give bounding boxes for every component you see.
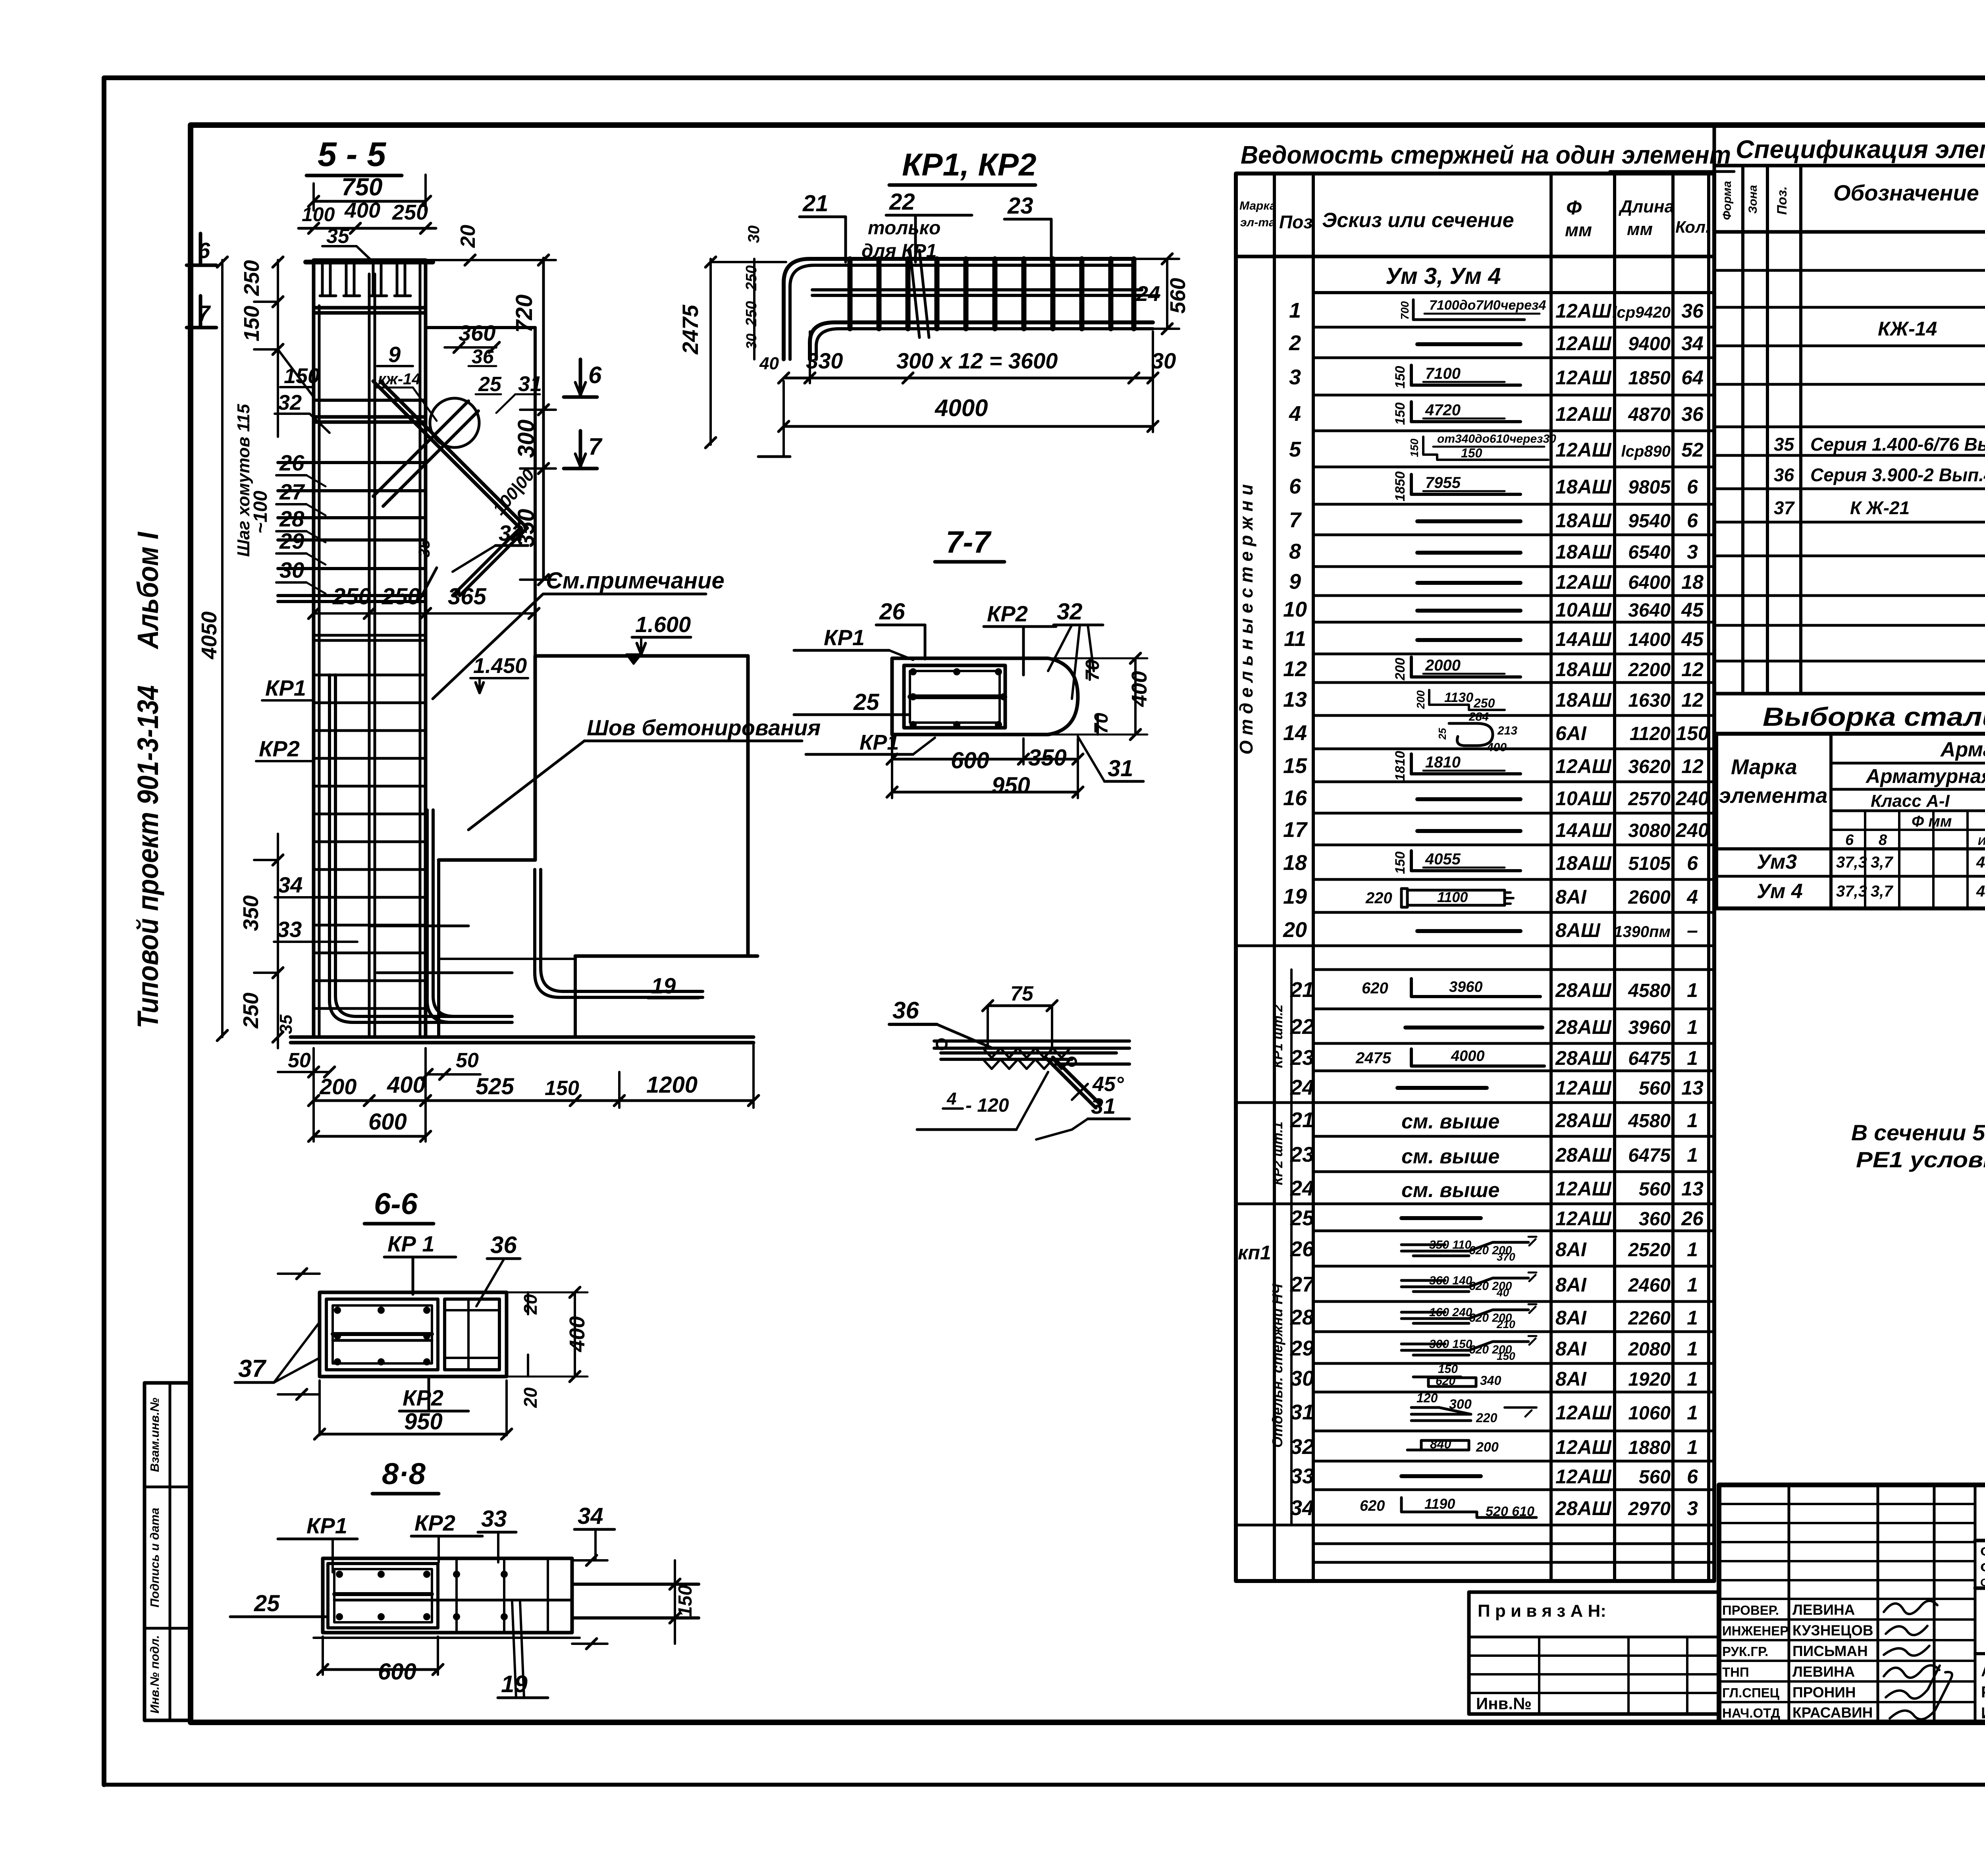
subheader Ум 3, Ум 4 — [1313, 291, 1714, 294]
svg-text:250: 250 — [332, 584, 371, 609]
svg-text:18АШ: 18АШ — [1555, 476, 1612, 498]
svg-text:22: 22 — [889, 189, 915, 215]
svg-text:284: 284 — [1469, 710, 1489, 723]
svg-text:34: 34 — [1681, 332, 1704, 355]
frame bottom bar — [810, 322, 1153, 359]
central table column lines — [1273, 174, 1276, 1581]
left dim chain 250 150 — [277, 260, 279, 437]
svg-text:12АШ: 12АШ — [1555, 1465, 1612, 1488]
svg-text:24: 24 — [1290, 1176, 1314, 1200]
svg-text:20: 20 — [520, 1294, 541, 1315]
svg-text:4000: 4000 — [1451, 1048, 1485, 1064]
svg-text:25: 25 — [853, 689, 879, 715]
svg-text:30: 30 — [745, 226, 763, 243]
svg-text:200: 200 — [319, 1074, 357, 1099]
svg-text:35: 35 — [416, 540, 433, 557]
svg-text:1190: 1190 — [1424, 1496, 1455, 1512]
right extension 8-8 — [572, 1583, 699, 1586]
svg-text:150: 150 — [284, 364, 320, 388]
svg-text:6475: 6475 — [1628, 1048, 1671, 1069]
svg-text:9: 9 — [1289, 570, 1301, 594]
break mark — [910, 250, 919, 337]
svg-text:45: 45 — [1681, 628, 1704, 650]
svg-text:см. выше: см. выше — [1401, 1179, 1499, 1202]
svg-text:25: 25 — [478, 373, 502, 396]
signatures — [1884, 1601, 1937, 1614]
svg-text:К Ж-21: К Ж-21 — [1850, 497, 1910, 518]
svg-text:7: 7 — [198, 301, 211, 326]
svg-text:КР1: КР1 — [824, 625, 865, 650]
svg-text:КР1 шт.2: КР1 шт.2 — [1270, 1005, 1285, 1068]
svg-text:340: 340 — [1480, 1373, 1501, 1388]
svg-text:КР2: КР2 — [414, 1510, 455, 1535]
svg-text:ЛЕВИНА: ЛЕВИНА — [1792, 1664, 1855, 1680]
svg-text:8АI: 8АI — [1555, 886, 1587, 908]
svg-text:8: 8 — [1879, 832, 1887, 848]
svg-text:6: 6 — [1289, 474, 1301, 498]
svg-text:lср890: lср890 — [1621, 443, 1671, 460]
svg-text:10: 10 — [1283, 598, 1307, 621]
weld circle mark — [430, 398, 479, 447]
svg-text:350: 350 — [513, 509, 539, 548]
svg-text:Эскиз или сечение: Эскиз или сечение — [1322, 209, 1514, 232]
svg-text:18АШ: 18АШ — [1555, 509, 1612, 532]
section mark 7 left — [199, 296, 202, 328]
steel table data rows — [1716, 847, 1985, 850]
svg-text:12: 12 — [1681, 658, 1704, 681]
svg-text:6: 6 — [1687, 476, 1698, 498]
embed plate 35 top — [306, 260, 433, 264]
svg-text:РЕ1. РАЗРЕЗЫ. АРМАТУРНЫЕ: РЕ1. РАЗРЕЗЫ. АРМАТУРНЫЕ — [1981, 1683, 1985, 1701]
svg-text:40: 40 — [1496, 1286, 1509, 1299]
svg-text:ТНП: ТНП — [1722, 1665, 1749, 1679]
svg-text:330: 330 — [806, 348, 843, 373]
svg-text:6-6: 6-6 — [374, 1187, 418, 1221]
svg-text:400: 400 — [1127, 671, 1151, 707]
svg-text:13: 13 — [1681, 1178, 1704, 1200]
svg-text:28АШ: 28АШ — [1555, 1047, 1612, 1069]
lower ties — [314, 634, 425, 637]
svg-text:41,0: 41,0 — [1976, 883, 1985, 900]
svg-text:350 110: 350 110 — [1429, 1238, 1472, 1251]
svg-text:2570: 2570 — [1628, 789, 1671, 810]
svg-text:3: 3 — [1687, 541, 1698, 563]
svg-text:400: 400 — [344, 199, 380, 222]
svg-text:620: 620 — [1436, 1375, 1455, 1388]
svg-text:эл-та: эл-та — [1240, 216, 1276, 229]
svg-text:мм: мм — [1627, 220, 1653, 239]
svg-text:20: 20 — [457, 225, 480, 248]
svg-text:Выборка стали на один элемент,: Выборка стали на один элемент, кГ — [1763, 702, 1985, 731]
svg-text:только: только — [868, 218, 940, 239]
svg-text:2200: 2200 — [1628, 659, 1671, 681]
svg-text:Инв.№: Инв.№ — [1476, 1694, 1532, 1713]
svg-text:2260: 2260 — [1628, 1308, 1671, 1329]
svg-text:17: 17 — [1283, 818, 1308, 842]
svg-text:12АШ: 12АШ — [1555, 300, 1612, 322]
svg-text:4720: 4720 — [1425, 401, 1461, 419]
svg-text:1: 1 — [1687, 1436, 1698, 1458]
svg-text:Ведомость стержней на один эле: Ведомость стержней на один элемент — [1241, 141, 1731, 169]
diagonal strut bars — [373, 381, 520, 528]
svg-text:150: 150 — [1393, 403, 1408, 425]
rebar dots 6-6 — [334, 1307, 341, 1314]
svg-text:250: 250 — [239, 993, 263, 1029]
svg-text:31: 31 — [1108, 756, 1133, 781]
svg-text:1: 1 — [1687, 1307, 1698, 1329]
svg-text:70: 70 — [1091, 713, 1112, 734]
svg-text:14АШ: 14АШ — [1555, 819, 1612, 841]
svg-text:36: 36 — [1774, 465, 1794, 485]
svg-text:ИНЖЕНЕР: ИНЖЕНЕР — [1722, 1623, 1788, 1638]
svg-text:520 610: 520 610 — [1486, 1504, 1534, 1519]
svg-text:ПИСЬМАН: ПИСЬМАН — [1792, 1643, 1868, 1659]
dim 560 rotated right — [1166, 259, 1168, 329]
svg-text:Инв.№ подл.: Инв.№ подл. — [148, 1635, 162, 1713]
svg-text:1810: 1810 — [1425, 754, 1461, 771]
svg-text:240: 240 — [1675, 787, 1709, 810]
svg-text:28АШ: 28АШ — [1555, 1497, 1612, 1519]
svg-text:32: 32 — [1057, 599, 1083, 625]
svg-text:26: 26 — [1290, 1237, 1314, 1261]
svg-text:1850: 1850 — [1393, 471, 1408, 501]
steel table header rows — [1831, 762, 1985, 765]
right dim chain 720 300 350 — [542, 258, 545, 580]
sheet inner frame — [191, 125, 1985, 1722]
svg-text:35: 35 — [326, 225, 350, 248]
title block project name small text — [1975, 1587, 1985, 1590]
svg-text:12АШ: 12АШ — [1555, 332, 1612, 355]
svg-text:6: 6 — [1687, 509, 1698, 532]
svg-text:КР 1: КР 1 — [387, 1231, 434, 1256]
section 7-7 body outline — [892, 658, 1078, 735]
svg-text:НАЧ.ОТД: НАЧ.ОТД — [1722, 1706, 1780, 1720]
section 8-8 body — [323, 1558, 572, 1633]
svg-text:–: – — [1687, 919, 1698, 941]
svg-text:8АI: 8АI — [1555, 1307, 1587, 1329]
svg-text:30: 30 — [743, 334, 759, 349]
svg-text:32: 32 — [278, 391, 302, 415]
dim 100 400 250 — [299, 227, 436, 230]
weld zigzag — [983, 1048, 1070, 1058]
svg-text:2600: 2600 — [1628, 887, 1671, 908]
svg-text:8АI: 8АI — [1555, 1238, 1587, 1261]
rebar dots 8-8 — [336, 1571, 343, 1578]
svg-text:Ум 3, Ум 4: Ум 3, Ум 4 — [1386, 263, 1501, 289]
top anchor comb — [321, 262, 324, 296]
svg-text:16: 16 — [1283, 786, 1307, 810]
svg-text:4580: 4580 — [1628, 980, 1671, 1001]
svg-text:840: 840 — [1430, 1437, 1451, 1451]
svg-text:Спецификация элементов монолит: Спецификация элементов монолитной констр… — [1736, 135, 1985, 164]
svg-text:64: 64 — [1681, 366, 1704, 389]
svg-text:33: 33 — [1290, 1464, 1314, 1488]
svg-text:21: 21 — [1290, 1108, 1314, 1132]
svg-text:18АШ: 18АШ — [1555, 541, 1612, 563]
svg-text:2520: 2520 — [1628, 1240, 1671, 1261]
svg-text:см. выше: см. выше — [1401, 1110, 1499, 1133]
svg-text:26: 26 — [1681, 1207, 1704, 1230]
dim 4050 rotated far left — [221, 260, 224, 1037]
svg-text:18: 18 — [1283, 851, 1307, 875]
bottom dim 600 — [314, 1135, 426, 1138]
svg-text:950: 950 — [404, 1409, 443, 1434]
svg-text:4580: 4580 — [1628, 1111, 1671, 1132]
svg-text:1: 1 — [1687, 1109, 1698, 1132]
svg-text:370: 370 — [1497, 1251, 1515, 1263]
svg-text:250: 250 — [743, 301, 760, 326]
label 360 dim — [445, 346, 496, 349]
svg-text:300 150: 300 150 — [1429, 1338, 1472, 1351]
svg-text:5: 5 — [1289, 438, 1301, 461]
svg-text:Длина: Длина — [1618, 197, 1674, 216]
svg-text:160 240: 160 240 — [1429, 1306, 1472, 1319]
svg-text:34: 34 — [578, 1503, 603, 1529]
svg-text:1060: 1060 — [1628, 1403, 1671, 1424]
svg-text:31: 31 — [518, 372, 542, 396]
svg-text:2: 2 — [1289, 331, 1301, 355]
svg-text:41,0: 41,0 — [1976, 854, 1985, 871]
svg-text:КР1: КР1 — [265, 675, 306, 700]
svg-text:25: 25 — [1290, 1206, 1314, 1230]
svg-text:Кол.: Кол. — [1675, 218, 1710, 236]
svg-text:36: 36 — [1681, 300, 1704, 322]
svg-text:24: 24 — [1136, 282, 1160, 306]
svg-text:150: 150 — [1497, 1350, 1515, 1362]
dims 20 400 20 right 6-6 — [527, 1292, 529, 1314]
svg-text:36: 36 — [1681, 403, 1704, 425]
svg-text:КР2 шт.1: КР2 шт.1 — [1270, 1122, 1285, 1185]
svg-text:150: 150 — [675, 1585, 696, 1617]
svg-text:400: 400 — [1486, 741, 1507, 754]
svg-text:560: 560 — [1639, 1179, 1671, 1200]
svg-text:Класс А-I: Класс А-I — [1871, 791, 1950, 811]
svg-text:6: 6 — [1687, 1465, 1698, 1488]
svg-text:560: 560 — [1639, 1467, 1671, 1488]
svg-text:18АШ: 18АШ — [1555, 689, 1612, 711]
svg-text:2080: 2080 — [1628, 1339, 1671, 1360]
svg-text:6475: 6475 — [1628, 1145, 1671, 1166]
bent bar A footing — [330, 675, 491, 1022]
svg-text:- 120: - 120 — [966, 1095, 1009, 1116]
svg-text:4050: 4050 — [197, 611, 221, 659]
svg-text:365: 365 — [448, 584, 487, 609]
frame top bar — [784, 259, 1134, 359]
svg-text:23: 23 — [1290, 1143, 1314, 1166]
svg-text:360: 360 — [459, 320, 495, 345]
svg-text:7955: 7955 — [1425, 474, 1461, 492]
svg-text:Форма: Форма — [1721, 181, 1734, 220]
svg-text:1400: 1400 — [1628, 629, 1671, 650]
spec table title — [1714, 125, 1985, 166]
svg-text:220: 220 — [1476, 1411, 1497, 1425]
svg-text:560: 560 — [1166, 278, 1190, 314]
svg-text:2475: 2475 — [678, 305, 703, 355]
svg-text:Ум 4: Ум 4 — [1757, 880, 1803, 903]
section mark 6 right — [579, 359, 582, 397]
svg-text:1.450: 1.450 — [473, 654, 527, 678]
dim 2475 rotated left — [709, 259, 712, 445]
svg-text:1850: 1850 — [1628, 368, 1671, 389]
svg-text:8АШ: 8АШ — [1555, 919, 1601, 941]
svg-text:36: 36 — [472, 345, 494, 368]
bottom dim chain 200 400 525 150 1200 — [314, 1099, 754, 1102]
svg-text:12: 12 — [1681, 755, 1704, 777]
svg-text:от340до610через30: от340до610через30 — [1437, 432, 1556, 445]
ties in hoop zone 26-30 — [278, 461, 425, 464]
svg-text:250: 250 — [240, 260, 264, 296]
svg-text:4: 4 — [1289, 402, 1301, 426]
svg-text:75: 75 — [1010, 982, 1034, 1005]
section 6-6 mid bars — [333, 1332, 432, 1336]
svg-text:7: 7 — [588, 433, 603, 460]
svg-text:Серия 3.900-2 Вып.4: Серия 3.900-2 Вып.4 — [1810, 465, 1985, 485]
svg-text:1: 1 — [1687, 1047, 1698, 1069]
svg-text:lср9420: lср9420 — [1612, 304, 1671, 321]
svg-text:РУК.ГР.: РУК.ГР. — [1722, 1644, 1768, 1659]
section 8-8 left stirrup — [328, 1564, 438, 1628]
title block doc number ТП 901-3-134 КЖ — [1975, 1539, 1985, 1542]
dim 600 8-8 — [323, 1668, 438, 1671]
svg-text:35: 35 — [276, 1014, 296, 1034]
svg-text:ПРОНИН: ПРОНИН — [1792, 1684, 1856, 1701]
svg-text:Зона: Зона — [1746, 185, 1760, 214]
svg-text:28АШ: 28АШ — [1555, 1109, 1612, 1132]
svg-text:Марка: Марка — [1731, 755, 1797, 779]
svg-text:25: 25 — [254, 1591, 280, 1616]
svg-text:6АI: 6АI — [1555, 722, 1587, 744]
svg-text:34: 34 — [278, 872, 303, 897]
left margin stamp strip — [145, 1383, 191, 1720]
svg-text:33: 33 — [481, 1506, 507, 1532]
svg-text:36: 36 — [490, 1232, 517, 1258]
svg-text:45: 45 — [1681, 599, 1704, 621]
frame stirrups — [848, 259, 853, 329]
svg-text:70: 70 — [1082, 659, 1103, 681]
svg-text:12: 12 — [1283, 657, 1307, 681]
svg-text:кж-14: кж-14 — [378, 370, 421, 388]
svg-text:29: 29 — [279, 528, 304, 553]
svg-text:1: 1 — [1687, 1368, 1698, 1390]
svg-text:350: 350 — [239, 895, 263, 931]
svg-text:1630: 1630 — [1628, 690, 1671, 711]
svg-text:33: 33 — [277, 917, 302, 942]
svg-text:9400: 9400 — [1628, 334, 1671, 355]
svg-text:6400: 6400 — [1628, 572, 1671, 593]
svg-text:4: 4 — [1686, 886, 1698, 908]
svg-text:КР2: КР2 — [987, 601, 1028, 626]
svg-text:3960: 3960 — [1628, 1017, 1671, 1038]
svg-text:560: 560 — [1639, 1078, 1671, 1099]
svg-text:350: 350 — [1028, 745, 1067, 771]
svg-text:6: 6 — [1845, 832, 1854, 848]
svg-text:12АШ: 12АШ — [1555, 1207, 1612, 1230]
svg-text:1: 1 — [1687, 1338, 1698, 1360]
svg-text:КЖ-14: КЖ-14 — [1878, 318, 1937, 340]
svg-text:32: 32 — [1290, 1435, 1314, 1459]
svg-text:2970: 2970 — [1628, 1498, 1671, 1519]
svg-text:220: 220 — [1365, 889, 1392, 907]
svg-text:24: 24 — [1290, 1076, 1314, 1099]
svg-text:~100: ~100 — [250, 491, 271, 534]
svg-text:200: 200 — [1415, 690, 1427, 709]
svg-text:КУЗНЕЦОВ: КУЗНЕЦОВ — [1792, 1622, 1873, 1639]
rebar dots 7-7 — [910, 668, 917, 675]
steel table outer — [1716, 734, 1985, 908]
footing bottom slab — [291, 1035, 754, 1039]
svg-text:600: 600 — [378, 1659, 416, 1685]
bent bar C footing with 19 — [535, 870, 703, 997]
svg-text:АРМИРОВАНИЕ УМ3, УМ4,ЕМКОСТИ: АРМИРОВАНИЕ УМ3, УМ4,ЕМКОСТИ — [1981, 1662, 1985, 1680]
svg-text:5105: 5105 — [1628, 853, 1671, 874]
svg-text:18АШ: 18АШ — [1555, 658, 1612, 681]
svg-text:3,7: 3,7 — [1871, 883, 1893, 900]
svg-text:1810: 1810 — [1393, 751, 1408, 781]
svg-text:37,3: 37,3 — [1836, 883, 1867, 900]
svg-text:23: 23 — [1290, 1046, 1314, 1070]
svg-text:30: 30 — [279, 557, 304, 582]
dim 750 top — [314, 200, 426, 203]
svg-text:5 - 5: 5 - 5 — [318, 135, 386, 174]
svg-text:37: 37 — [1774, 497, 1795, 518]
central table header row — [1236, 255, 1714, 258]
svg-text:12АШ: 12АШ — [1555, 403, 1612, 425]
svg-text:950: 950 — [992, 773, 1030, 798]
svg-text:720: 720 — [511, 295, 537, 333]
svg-text:1100: 1100 — [1437, 889, 1468, 905]
svg-text:600: 600 — [368, 1109, 407, 1135]
svg-text:120: 120 — [1416, 1391, 1438, 1405]
svg-text:11: 11 — [1284, 627, 1306, 651]
svg-text:21: 21 — [802, 191, 829, 216]
svg-text:1.600: 1.600 — [635, 612, 691, 637]
svg-text:26: 26 — [279, 450, 304, 475]
group divider sliver — [1290, 970, 1293, 1525]
svg-text:20: 20 — [1283, 918, 1307, 942]
left small dims 30 250 250 30 — [753, 259, 755, 359]
frame mid bars — [812, 288, 1142, 291]
svg-text:КРАСАВИН: КРАСАВИН — [1792, 1704, 1873, 1721]
svg-text:620: 620 — [1360, 1498, 1385, 1514]
svg-text:2000: 2000 — [1425, 657, 1461, 674]
steel table Марка элемента — [1829, 734, 1833, 908]
svg-text:360 140: 360 140 — [1429, 1274, 1472, 1287]
svg-text:10АШ: 10АШ — [1555, 599, 1612, 621]
svg-text:525: 525 — [476, 1074, 515, 1099]
spec table header — [1714, 166, 1985, 232]
svg-text:Ум3: Ум3 — [1757, 850, 1797, 873]
svg-text:34: 34 — [1290, 1496, 1314, 1520]
svg-text:29: 29 — [1290, 1336, 1314, 1360]
svg-text:С СОДЕРЖАНИЕМ ВЗВЕШЕННЫХ ВЕЩЕС: С СОДЕРЖАНИЕМ ВЗВЕШЕННЫХ ВЕЩЕСТВ ДО 700 … — [1980, 1560, 1985, 1574]
section 8-8 mid bars — [334, 1592, 432, 1596]
svg-text:250: 250 — [1473, 696, 1495, 710]
svg-text:1: 1 — [1687, 1402, 1698, 1424]
svg-text:300: 300 — [513, 420, 539, 458]
svg-text:7100: 7100 — [1425, 365, 1461, 382]
svg-text:4000: 4000 — [935, 395, 988, 421]
svg-text:27: 27 — [1290, 1273, 1315, 1296]
horizontal ties upper — [314, 306, 425, 310]
svg-text:3640: 3640 — [1628, 600, 1671, 621]
svg-text:См.примечание: См.примечание — [546, 568, 725, 594]
svg-text:12АШ: 12АШ — [1555, 1077, 1612, 1099]
svg-text:7100до7И0через4: 7100до7И0через4 — [1429, 298, 1546, 313]
svg-text:1120: 1120 — [1630, 723, 1671, 744]
svg-text:мм: мм — [1565, 220, 1592, 240]
svg-text:45°: 45° — [1092, 1073, 1124, 1096]
svg-text:50: 50 — [456, 1049, 479, 1072]
